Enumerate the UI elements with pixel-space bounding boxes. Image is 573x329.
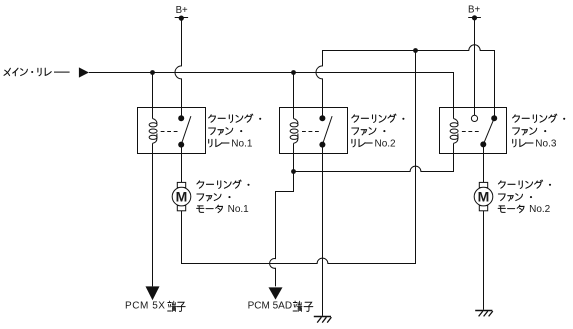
power B+ terminal 2 <box>468 5 481 21</box>
wire: junction down to relay No.2 coil <box>293 73 295 119</box>
svg-text:M: M <box>478 188 490 204</box>
wire: relay No.1 output to motor No.1 <box>181 145 183 183</box>
junction: main line to relay No.1 coil <box>150 70 155 75</box>
svg-text:B+: B+ <box>468 5 480 16</box>
label: cooling fan motor No.1 text <box>197 180 250 215</box>
arrow: to PCM 5X terminal <box>146 286 160 300</box>
junction: main line to relay No.2 coil <box>291 70 296 75</box>
ground symbol 2 <box>475 311 493 317</box>
wire: relay No.2 coil bottom to relay No.3 coil bottom (hop over riser) <box>294 143 454 171</box>
arrow: main relay feed into diagram <box>79 67 89 77</box>
wire: relay No.3 common to motor No.2 <box>483 144 485 182</box>
label: cooling fan motor No.2 text <box>498 180 551 215</box>
relay No.1 box <box>138 108 206 154</box>
svg-text:No.2: No.2 <box>529 204 551 215</box>
label: main relay (メイン・リレー) <box>4 68 70 76</box>
relay No.3 coil-switch link (dashed) <box>462 131 480 133</box>
wire: B+1 to relay No.1 switch contact (hop over main line) <box>175 18 181 118</box>
svg-text:No.1: No.1 <box>228 204 250 215</box>
wire: B+2 down to relay No.3 NC contact <box>474 18 476 115</box>
wire: motor No.2 to ground <box>483 211 485 310</box>
svg-text:M: M <box>176 188 188 204</box>
relay No.3 coil <box>450 119 458 144</box>
svg-text:No.2: No.2 <box>375 138 397 149</box>
relay No.2 switch contacts and blade <box>319 115 332 147</box>
relay No.2 box <box>280 108 348 154</box>
ground symbol 1 <box>314 317 332 323</box>
label: cooling fan relay No.1 text <box>209 114 262 149</box>
relay No.3 box <box>440 108 507 154</box>
svg-text:No.1: No.1 <box>231 138 253 149</box>
svg-text:B+: B+ <box>176 5 188 16</box>
arrow: to PCM 5AD terminal <box>269 287 283 299</box>
relay No.2 coil-switch link (dashed) <box>302 131 321 133</box>
svg-text:PCM 5AD: PCM 5AD <box>248 301 292 312</box>
junction: upper bus to riser of motor No.1 return <box>413 48 418 53</box>
motor M1 (cooling fan motor No.1) <box>172 182 191 210</box>
wire: junction down to relay No.1 coil <box>152 73 154 119</box>
junction: coil net to PCM 5AD wire <box>291 169 296 174</box>
label: cooling fan relay No.3 text <box>513 114 566 149</box>
wire: relay No.1 coil bottom down to PCM 5X <box>152 143 154 286</box>
wire: relay No.2 switch to ground <box>322 145 324 316</box>
wire: PCM 5AD drop with jog (hop over motor return line) <box>270 172 294 287</box>
relay No.2 coil <box>290 119 298 144</box>
relay No.1 coil-switch link (dashed) <box>161 131 180 133</box>
svg-text:No.3: No.3 <box>535 138 557 149</box>
wire: main line from arrow to relay No.3 coil <box>89 73 454 119</box>
label: PCM 5X端子 <box>125 301 185 312</box>
svg-text:PCM 5X: PCM 5X <box>125 301 166 312</box>
relay No.3 switch contacts and blade (changeover, closed to right contact) <box>471 115 497 147</box>
motor M2 (cooling fan motor No.2) <box>474 182 493 210</box>
relay No.1 switch contacts and blade <box>178 115 191 147</box>
label: cooling fan relay No.2 text <box>352 114 405 149</box>
wire: motor No.1 bottom, run right (hop over ground wire), riser up to upper bus <box>182 51 416 264</box>
wire: relay No.2 contact riser, upper bus to relay No.3 contact (hops over main line and B+2) <box>316 45 495 118</box>
power B+ terminal 1 <box>175 5 188 21</box>
label: PCM 5AD端子 <box>248 301 313 312</box>
relay No.1 coil <box>149 119 157 144</box>
